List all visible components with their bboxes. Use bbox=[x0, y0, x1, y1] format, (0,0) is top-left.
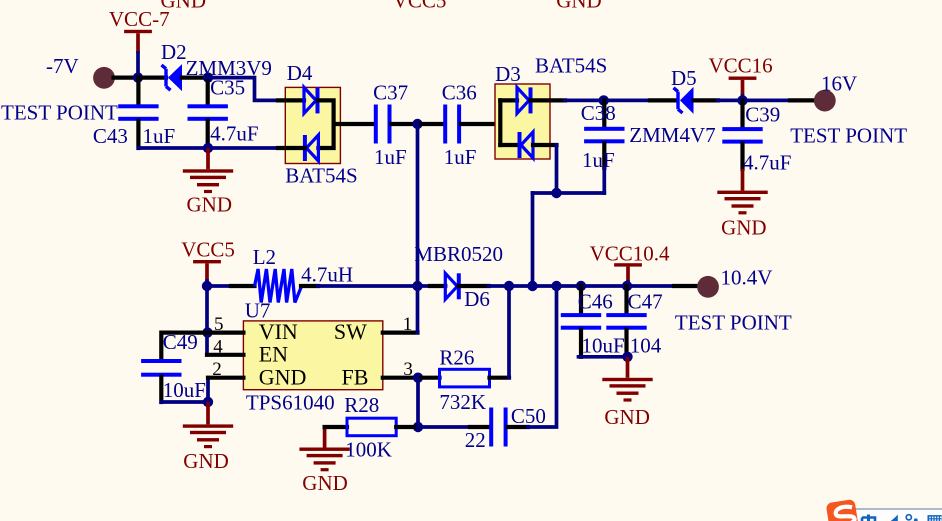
pin wire D4 pin2 bbox=[278, 146, 305, 150]
pin wire R26 right bbox=[490, 376, 510, 380]
pin wire D5 cathode side bbox=[650, 98, 676, 102]
diode D6 (MBR0520) bbox=[445, 273, 459, 299]
svg-text:VIN: VIN bbox=[259, 319, 298, 344]
svg-text:C43: C43 bbox=[93, 124, 128, 148]
wire GND pin down bbox=[206, 378, 210, 402]
svg-text:D3: D3 bbox=[495, 62, 521, 86]
pin wire U7 pin4 EN bbox=[207, 353, 243, 357]
junction node rail/VCC10.4 bbox=[622, 281, 632, 291]
svg-text:10uF: 10uF bbox=[163, 378, 206, 402]
svg-text:GND: GND bbox=[721, 216, 767, 240]
pin wire C43 top bbox=[136, 78, 140, 105]
ground symbol GND (C39) bbox=[717, 191, 767, 215]
ground symbol GND (C49/U7) bbox=[183, 424, 233, 448]
pin wire 16V test point bbox=[790, 98, 815, 102]
svg-text:4.7uF: 4.7uF bbox=[743, 150, 791, 174]
svg-text:TEST POINT: TEST POINT bbox=[675, 311, 792, 335]
dual diode D4 BAT54S body bbox=[285, 87, 340, 163]
pin wire C43 bottom bbox=[136, 121, 140, 148]
wire SW node vertical bbox=[416, 124, 420, 333]
svg-text:R28: R28 bbox=[344, 393, 379, 417]
wire bbox=[136, 53, 140, 78]
wire VCC16 to test point bbox=[743, 99, 791, 103]
test point TP 16V bbox=[814, 90, 836, 112]
wire node to D6 bbox=[418, 284, 431, 288]
svg-text:1uF: 1uF bbox=[374, 145, 407, 169]
svg-text:VCC10.4: VCC10.4 bbox=[590, 241, 670, 265]
wire D3 to node 16V-in bbox=[565, 99, 604, 103]
ground stem bbox=[741, 169, 745, 191]
resistor R26 bbox=[440, 369, 490, 387]
watermark sail icon bbox=[891, 515, 898, 521]
svg-text:GND: GND bbox=[604, 405, 650, 429]
wire node A to D4 pin1 bbox=[208, 78, 278, 101]
wire D6 to rail bbox=[489, 284, 510, 288]
junction node -7V bbox=[133, 72, 143, 82]
junction node C38 top bbox=[599, 95, 609, 105]
watermark band bbox=[855, 509, 942, 521]
svg-text:VCC5: VCC5 bbox=[393, 0, 447, 13]
svg-text:3: 3 bbox=[403, 359, 413, 380]
svg-text:2: 2 bbox=[212, 359, 222, 380]
pin wire C49 top bbox=[161, 333, 207, 359]
capacitor C46 bbox=[561, 313, 601, 330]
wire to D5 bbox=[604, 99, 650, 103]
svg-text:TEST POINT: TEST POINT bbox=[790, 124, 907, 148]
pin wire L2 left bbox=[231, 284, 255, 288]
pin wire D6 cathode bbox=[459, 284, 489, 288]
svg-text:D2: D2 bbox=[161, 40, 187, 64]
watermark grid icon bbox=[928, 515, 942, 521]
svg-text:MBR0520: MBR0520 bbox=[414, 242, 503, 266]
svg-text:R26: R26 bbox=[439, 346, 474, 370]
junction node rail/D3-bottom bbox=[527, 281, 537, 291]
svg-text:C47: C47 bbox=[628, 290, 663, 314]
pin wire D3 top out bbox=[531, 98, 566, 102]
svg-text:GND: GND bbox=[556, 0, 602, 13]
pin wire C36 right to D3 bbox=[461, 122, 500, 126]
watermark pin icon bbox=[906, 515, 911, 520]
capacitor C50 bbox=[489, 408, 507, 447]
junction node at C35 bottom bbox=[203, 143, 213, 153]
svg-text:C36: C36 bbox=[442, 81, 477, 105]
pin wire C36 left bbox=[418, 122, 444, 126]
pin wire U7 pin5 VIN bbox=[208, 331, 244, 335]
svg-text:D6: D6 bbox=[464, 287, 490, 311]
dual diode D3 BAT54S body bbox=[495, 84, 550, 159]
svg-text:D5: D5 bbox=[671, 66, 697, 90]
capacitor C47 bbox=[606, 313, 646, 330]
pin wire C47 top bbox=[624, 286, 628, 313]
capacitor C37 bbox=[374, 105, 392, 144]
diode D3-A bbox=[517, 87, 531, 113]
svg-text:4.7uF: 4.7uF bbox=[210, 122, 258, 146]
svg-text:10uF: 10uF bbox=[582, 334, 625, 358]
svg-text:GND: GND bbox=[259, 364, 307, 389]
svg-text:GND: GND bbox=[183, 449, 229, 473]
wire bbox=[205, 281, 209, 286]
svg-text:732K: 732K bbox=[439, 390, 486, 414]
watermark glyph (CJK char drawn as strokes) bbox=[862, 515, 875, 521]
junction node VIN bbox=[202, 327, 212, 337]
svg-text:4.7uH: 4.7uH bbox=[301, 263, 353, 287]
power stem VCC5 bbox=[205, 263, 209, 281]
svg-text:ZMM4V7: ZMM4V7 bbox=[629, 123, 715, 147]
pin wire C50 right bbox=[508, 425, 528, 429]
capacitor C35 bbox=[188, 104, 228, 121]
pin wire C49 bottom bbox=[159, 377, 163, 402]
wire across at y193 bbox=[533, 191, 605, 195]
pin wire C35 top bbox=[206, 78, 210, 105]
junction node C46/C47 bottom bbox=[622, 352, 632, 362]
wire FB node down bbox=[416, 378, 420, 427]
pin wire D2 cathode side bbox=[182, 75, 208, 79]
svg-text:1uF: 1uF bbox=[444, 145, 477, 169]
pin wire C46 bottom bbox=[579, 330, 583, 357]
junction node C37/C36 bbox=[412, 119, 422, 129]
internal wire D3 to top diode bbox=[500, 98, 517, 102]
internal wire D3 common bbox=[498, 100, 502, 145]
svg-text:SW: SW bbox=[334, 319, 367, 344]
pin wire C35 bottom bbox=[206, 121, 210, 148]
svg-text:VCC5: VCC5 bbox=[181, 238, 235, 262]
power bar VCC-7 bbox=[124, 30, 152, 33]
pin wire C47 bottom bbox=[624, 330, 628, 357]
diode D2 (zener ZMM3V9) bbox=[162, 65, 171, 90]
resistor R28 bbox=[347, 418, 396, 436]
test point TP 10.4V bbox=[697, 276, 719, 298]
wire down to 10.4V rail bbox=[531, 193, 535, 286]
svg-text:C38: C38 bbox=[581, 101, 616, 125]
svg-text:22: 22 bbox=[465, 428, 486, 452]
ground stem bbox=[626, 357, 630, 378]
wire bottom-left rail bbox=[138, 146, 278, 150]
svg-text:100K: 100K bbox=[345, 437, 392, 461]
svg-text:GND: GND bbox=[187, 193, 233, 217]
junction node R26 top bbox=[504, 281, 514, 291]
junction node VCC5 bbox=[202, 281, 212, 291]
junction node at C35 top bbox=[203, 72, 213, 82]
pin wire 10.4V test point bbox=[674, 284, 698, 288]
wire to C50 bbox=[418, 425, 470, 429]
pin wire R28 right bbox=[396, 425, 418, 429]
junction node rail/C46 bbox=[576, 281, 586, 291]
svg-text:16V: 16V bbox=[821, 72, 857, 96]
junction node VCC16 bbox=[737, 95, 747, 105]
wire L2 to node SW bbox=[318, 284, 418, 288]
pin wire D4 pin1 bbox=[278, 98, 304, 102]
pin wire D6 anode bbox=[430, 284, 445, 288]
internal wire D4 common bbox=[318, 100, 334, 148]
svg-text:-7V: -7V bbox=[46, 54, 79, 78]
wire C38 bottom down bbox=[602, 168, 606, 193]
svg-text:C37: C37 bbox=[373, 81, 408, 105]
pin wire R28 left bbox=[325, 425, 347, 429]
diode D4-A bbox=[304, 87, 318, 113]
capacitor C38 bbox=[584, 127, 624, 144]
pin wire D4 pin3 to C37 bbox=[334, 122, 374, 126]
svg-text:C39: C39 bbox=[745, 102, 780, 126]
svg-text:10.4V: 10.4V bbox=[721, 265, 773, 289]
inductor L2 bbox=[255, 269, 302, 303]
power stem VCC-7 bbox=[136, 33, 140, 53]
svg-text:TEST POINT: TEST POINT bbox=[1, 101, 118, 125]
pin wire D3 bottom out bbox=[533, 143, 557, 147]
pin wire: test point to node bbox=[114, 75, 139, 79]
diode D4-B bbox=[305, 135, 319, 161]
svg-text:C50: C50 bbox=[511, 404, 546, 428]
svg-text:1uF: 1uF bbox=[143, 124, 176, 148]
junction node FB bbox=[413, 373, 423, 383]
power bar VCC10.4 bbox=[614, 263, 642, 266]
ground symbol GND (R28) bbox=[299, 448, 349, 472]
svg-text:BAT54S: BAT54S bbox=[285, 163, 357, 187]
junction node R28/C50 bbox=[413, 422, 423, 432]
pin wire D5 anode side bbox=[694, 98, 719, 102]
pin wire U7 pin3 FB bbox=[383, 376, 418, 380]
pin wire C50 left bbox=[470, 425, 489, 429]
svg-text:VCC16: VCC16 bbox=[709, 54, 773, 78]
watermark logo (orange S) bbox=[826, 499, 859, 521]
svg-text:1: 1 bbox=[403, 314, 413, 335]
wire C46 bottom to GND node bbox=[579, 355, 628, 359]
svg-text:VCC-7: VCC-7 bbox=[109, 7, 170, 31]
svg-text:5: 5 bbox=[214, 314, 224, 335]
pin wire U7 pin1 SW bbox=[383, 331, 418, 335]
test point TP -7V bbox=[93, 67, 115, 89]
pin wire C37 right bbox=[392, 122, 418, 126]
ground stem bbox=[206, 148, 210, 169]
svg-text:BAT54S: BAT54S bbox=[535, 54, 607, 78]
ground symbol GND (C35/C43) bbox=[183, 169, 233, 193]
wire 10.4V rail bbox=[509, 284, 674, 288]
svg-text:C49: C49 bbox=[163, 330, 198, 354]
pin wire C46 top bbox=[579, 286, 583, 313]
svg-text:FB: FB bbox=[342, 364, 369, 389]
power bar VCC16 bbox=[729, 77, 757, 80]
ground stem bbox=[323, 427, 327, 448]
junction node C49/GND bbox=[203, 397, 213, 407]
pin wire L2 right bbox=[301, 284, 318, 288]
svg-text:4: 4 bbox=[213, 336, 223, 357]
wire C50 up to rail bbox=[528, 286, 557, 427]
pin wire C38 top bbox=[602, 100, 606, 126]
junction node SW/rail bbox=[412, 281, 422, 291]
capacitor C36 bbox=[443, 105, 461, 144]
power stem VCC10.4 bbox=[626, 267, 630, 282]
svg-text:L2: L2 bbox=[253, 245, 276, 269]
capacitor C49 bbox=[141, 359, 181, 377]
svg-text:EN: EN bbox=[259, 341, 288, 366]
svg-text:GND: GND bbox=[302, 471, 348, 495]
ground symbol GND (C46/C47) bbox=[602, 378, 652, 402]
svg-text:1uF: 1uF bbox=[582, 148, 615, 172]
pin wire C38 bottom bbox=[602, 143, 606, 168]
pin wire D2 anode side bbox=[138, 75, 166, 79]
wire D3 bottom down bbox=[555, 145, 559, 193]
capacitor C39 bbox=[722, 127, 762, 144]
wire VCC5 node down to VIN bbox=[205, 286, 209, 333]
diode D5 (zener ZMM4V7) bbox=[674, 88, 683, 113]
power stem VCC16 bbox=[741, 80, 745, 96]
svg-text:C46: C46 bbox=[578, 290, 613, 314]
pin wire R26 left bbox=[418, 376, 440, 380]
pin wire U7 pin2 GND bbox=[208, 376, 243, 380]
wire bbox=[626, 282, 630, 286]
wire VCC5 node to L2 bbox=[207, 284, 231, 288]
power bar VCC5 bbox=[193, 260, 221, 263]
pin wire C39 bottom bbox=[740, 144, 744, 169]
pin wire C39 top bbox=[740, 100, 744, 127]
internal wire D3 to bottom diode bbox=[500, 143, 519, 147]
junction node D3 bottom bbox=[551, 188, 561, 198]
junction node rail/C50 bbox=[551, 281, 561, 291]
ground stem bbox=[206, 402, 210, 424]
wire D5 to VCC16 node bbox=[718, 99, 742, 103]
svg-text:D4: D4 bbox=[287, 61, 313, 85]
capacitor C43 bbox=[118, 104, 158, 121]
svg-text:104: 104 bbox=[630, 334, 662, 358]
op-amp U7 TPS61040 body bbox=[243, 321, 382, 390]
svg-text:TPS61040: TPS61040 bbox=[246, 391, 335, 415]
diode D3-B bbox=[520, 132, 534, 158]
wire R26 up to rail bbox=[507, 286, 511, 378]
wire bbox=[741, 96, 745, 100]
wire VIN node to EN pin bbox=[205, 333, 209, 355]
wire C49 bottom to GND node bbox=[161, 400, 208, 404]
